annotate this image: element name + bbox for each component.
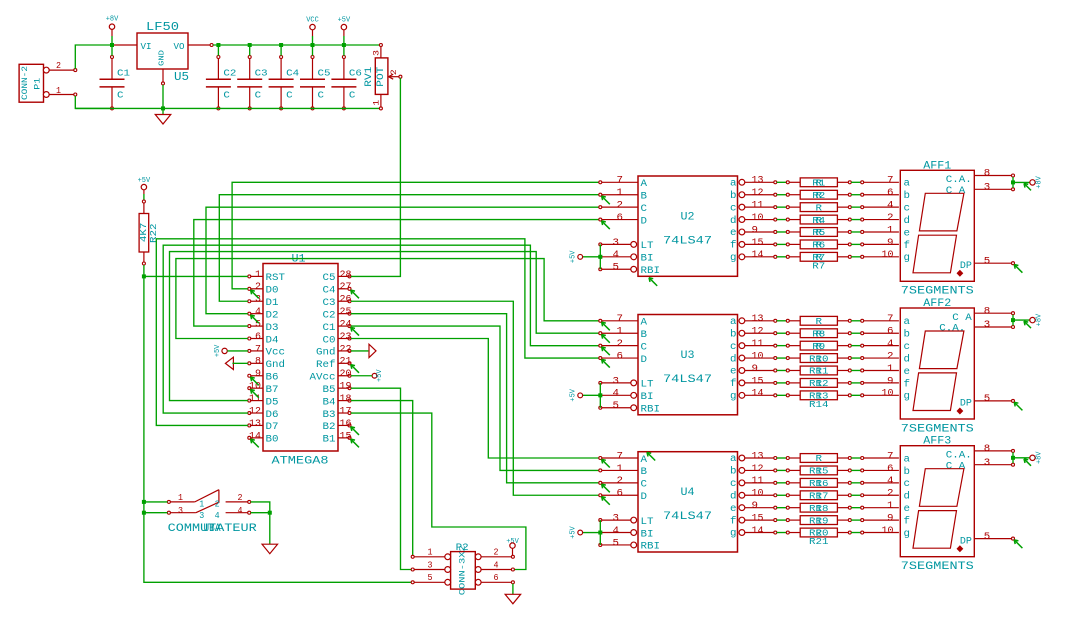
svg-text:a: a	[904, 179, 911, 190]
svg-text:7: 7	[887, 451, 894, 462]
svg-text:BI: BI	[641, 529, 654, 540]
svg-text:VI: VI	[141, 42, 152, 52]
svg-text:e: e	[730, 367, 737, 378]
svg-text:b: b	[904, 466, 911, 478]
resistor R17	[777, 476, 899, 489]
svg-text:7SEGMENTS: 7SEGMENTS	[901, 286, 974, 298]
svg-text:C: C	[641, 480, 648, 491]
svg-text:4: 4	[255, 307, 261, 318]
wire C3 top stub	[249, 45, 251, 56]
svg-text:B2: B2	[323, 422, 336, 433]
svg-text:D: D	[641, 216, 648, 227]
svg-text:C: C	[641, 342, 648, 353]
resistor R7	[777, 250, 899, 263]
svg-text:2: 2	[255, 282, 261, 293]
svg-text:1: 1	[887, 364, 894, 375]
label R14	[809, 400, 829, 410]
svg-text:C3: C3	[323, 298, 336, 309]
svg-text:AFF2: AFF2	[923, 298, 951, 310]
wire C3 to U4	[351, 301, 599, 495]
resistor R15	[777, 451, 899, 464]
pin arrow U3 in 1	[602, 335, 610, 343]
ground right U1	[369, 344, 376, 357]
svg-text:5: 5	[613, 538, 620, 549]
svg-text:f: f	[730, 515, 737, 527]
svg-text:B3: B3	[323, 410, 336, 421]
svg-text:d: d	[730, 353, 737, 365]
svg-text:C6: C6	[349, 69, 362, 79]
svg-text:f: f	[904, 240, 911, 252]
svg-text:RV1: RV1	[364, 67, 375, 87]
svg-text:D7: D7	[266, 422, 279, 433]
svg-text:g: g	[730, 253, 737, 264]
power +8V terminal AFF2	[1030, 313, 1044, 326]
svg-text:C: C	[286, 91, 293, 101]
wire AFF3 CA tie	[1012, 452, 1014, 463]
power +5V terminal top	[338, 17, 351, 37]
svg-text:13: 13	[752, 451, 764, 462]
wire AFF1 CA tie	[1012, 177, 1014, 188]
svg-text:D5: D5	[266, 397, 279, 408]
svg-text:1: 1	[887, 501, 894, 512]
resistor R20	[777, 514, 899, 527]
power +5V terminal AVcc U1	[372, 369, 384, 382]
ground left U1	[225, 357, 233, 369]
svg-text:d: d	[904, 491, 911, 503]
wire U2 BI to +5V	[583, 256, 601, 258]
display AFF3 7SEGMENTS	[900, 436, 1014, 573]
svg-text:R7: R7	[812, 261, 825, 271]
pin arrow U2 RBI corner	[649, 278, 657, 286]
svg-text:C1: C1	[117, 69, 130, 79]
wire P2.6 to ground	[512, 584, 514, 595]
wire AFF2 CA tie	[1012, 315, 1014, 326]
svg-text:R12: R12	[809, 379, 829, 389]
svg-text:12: 12	[752, 188, 764, 199]
svg-text:R14: R14	[809, 400, 829, 410]
svg-text:g: g	[904, 392, 911, 403]
ground P2	[505, 594, 521, 604]
svg-text:C: C	[349, 91, 356, 101]
svg-text:e: e	[904, 228, 911, 239]
wire U4 LT-RBI tie	[599, 520, 601, 545]
svg-text:4K7: 4K7	[139, 223, 149, 243]
svg-text:GND: GND	[159, 50, 167, 66]
pin arrow AFF1 CA	[1024, 183, 1031, 190]
wire P1.1 to gnd rail	[75, 96, 110, 109]
power +5V terminal U4	[569, 525, 582, 538]
svg-text:19: 19	[340, 382, 352, 393]
svg-text:D3: D3	[266, 323, 279, 334]
svg-text:3: 3	[984, 183, 991, 194]
resistor R5	[777, 225, 899, 238]
svg-text:11: 11	[752, 201, 764, 212]
svg-text:2: 2	[215, 499, 220, 509]
svg-text:d: d	[904, 353, 911, 365]
svg-text:74LS47: 74LS47	[663, 236, 712, 248]
svg-text:27: 27	[340, 282, 352, 293]
power +5V terminal P2	[506, 538, 519, 556]
svg-text:UBA: UBA	[204, 523, 221, 535]
svg-text:D4: D4	[266, 335, 279, 346]
node RST junction	[142, 274, 146, 278]
svg-text:6: 6	[617, 213, 624, 224]
svg-text:AFF1: AFF1	[923, 160, 951, 172]
svg-text:R8: R8	[812, 329, 825, 339]
svg-text:13: 13	[752, 314, 764, 325]
svg-text:10: 10	[882, 250, 894, 261]
wire U3 LT-RBI tie	[599, 383, 601, 408]
wire gnd rail	[75, 107, 379, 109]
node switch out junction	[268, 511, 272, 515]
svg-text:8: 8	[255, 357, 261, 368]
svg-text:R17: R17	[809, 491, 829, 501]
svg-text:2: 2	[617, 339, 624, 350]
svg-text:1: 1	[56, 86, 61, 96]
svg-text:Ref: Ref	[316, 359, 336, 371]
svg-text:VCC: VCC	[306, 17, 319, 25]
svg-text:12: 12	[752, 327, 764, 338]
svg-text:RBI: RBI	[641, 405, 661, 416]
svg-text:C5: C5	[323, 273, 336, 284]
svg-text:8: 8	[984, 306, 991, 317]
svg-text:4: 4	[494, 560, 499, 570]
svg-text:+8V: +8V	[1036, 451, 1044, 464]
svg-text:DP: DP	[960, 399, 972, 410]
wire D7 to U3	[156, 239, 599, 426]
wire D4 to U3	[176, 259, 599, 339]
node AFF3 CA junction	[1011, 456, 1015, 460]
wire gnd stub	[162, 108, 164, 114]
svg-text:15: 15	[752, 238, 764, 249]
resistor R1	[777, 176, 899, 189]
label R7	[812, 261, 825, 271]
svg-text:A: A	[641, 455, 648, 466]
svg-text:g: g	[730, 529, 737, 540]
wire C1 top stub	[111, 45, 113, 56]
svg-text:14: 14	[752, 389, 764, 400]
capacitor C6	[331, 56, 362, 110]
svg-text:c: c	[904, 479, 911, 490]
wire Vcc U1	[227, 350, 248, 352]
svg-text:9: 9	[887, 376, 894, 387]
pin arrow U1 left 14	[251, 439, 259, 447]
node U4 BI junction	[598, 531, 602, 535]
svg-text:3: 3	[984, 320, 991, 331]
svg-text:7: 7	[617, 314, 624, 325]
svg-text:1: 1	[617, 327, 624, 338]
svg-text:5: 5	[984, 394, 991, 405]
power +5V terminal Vcc U1	[214, 344, 227, 357]
svg-text:+5V: +5V	[569, 388, 577, 401]
svg-text:C0: C0	[323, 335, 336, 346]
pin arrow U1 pin 15	[351, 439, 359, 447]
svg-text:20: 20	[340, 369, 352, 380]
svg-text:1: 1	[255, 270, 261, 281]
svg-text:AFF3: AFF3	[923, 436, 951, 448]
svg-text:6: 6	[494, 573, 499, 583]
svg-text:6: 6	[887, 464, 894, 475]
connector P2 CONN-3X2	[411, 543, 514, 596]
svg-text:7: 7	[617, 176, 624, 187]
wire B4 to P2.1	[351, 401, 413, 556]
pin arrow U1 pin 24	[351, 327, 359, 335]
node C5 junction	[311, 43, 315, 47]
svg-text:5: 5	[428, 573, 433, 583]
connector P1	[19, 61, 77, 102]
resistor R16	[777, 464, 899, 477]
svg-text:U5: U5	[174, 70, 189, 84]
wire D6 to U3	[163, 245, 599, 413]
svg-text:B7: B7	[266, 385, 279, 396]
svg-text:7: 7	[255, 344, 261, 355]
svg-text:CONN-2: CONN-2	[21, 66, 30, 100]
svg-text:4: 4	[238, 506, 243, 516]
svg-text:2: 2	[56, 61, 61, 71]
svg-text:CONN-3X2: CONN-3X2	[459, 545, 468, 595]
svg-text:14: 14	[752, 526, 764, 537]
svg-text:5: 5	[984, 532, 991, 543]
svg-text:26: 26	[340, 295, 352, 306]
svg-text:4: 4	[887, 201, 894, 212]
svg-text:13: 13	[249, 419, 261, 430]
svg-text:2: 2	[617, 476, 624, 487]
decoder U2 74LS47	[599, 176, 777, 277]
svg-text:2: 2	[390, 69, 399, 75]
pin arrow AFF2 DP	[1014, 402, 1022, 410]
svg-text:3: 3	[199, 511, 204, 521]
svg-text:LT: LT	[641, 517, 654, 528]
wire VO rail	[213, 44, 380, 46]
svg-text:g: g	[730, 392, 737, 403]
svg-text:2: 2	[887, 489, 894, 500]
svg-text:+8V: +8V	[1036, 313, 1044, 326]
svg-text:g: g	[904, 253, 911, 264]
svg-text:Gnd: Gnd	[266, 359, 286, 371]
svg-text:c: c	[730, 479, 737, 490]
svg-text:a: a	[730, 179, 737, 190]
svg-text:C.A.: C.A.	[939, 324, 965, 335]
svg-text:4: 4	[613, 389, 620, 400]
svg-text:12: 12	[249, 406, 261, 417]
decoder U4 74LS47	[599, 451, 777, 552]
node C6 junction	[342, 43, 346, 47]
resistor R8	[777, 314, 899, 327]
resistor R9	[777, 327, 899, 340]
svg-text:R1: R1	[812, 179, 825, 189]
svg-text:c: c	[904, 204, 911, 215]
label R21	[809, 537, 829, 547]
svg-text:7: 7	[887, 176, 894, 187]
svg-text:b: b	[730, 328, 737, 340]
svg-text:U1: U1	[292, 254, 306, 266]
svg-text:13: 13	[752, 176, 764, 187]
svg-text:23: 23	[340, 332, 352, 343]
svg-text:3: 3	[613, 238, 620, 249]
svg-text:e: e	[904, 504, 911, 515]
svg-text:C: C	[117, 91, 124, 101]
svg-text:11: 11	[752, 476, 764, 487]
svg-text:BI: BI	[641, 254, 654, 265]
svg-text:10: 10	[752, 351, 764, 362]
pin arrow U2 in 3	[602, 221, 610, 229]
svg-text:R4: R4	[812, 216, 825, 226]
pin arrow AFF3 CA	[1024, 459, 1031, 466]
svg-text:4: 4	[887, 339, 894, 350]
pin arrow U1 left 10	[251, 389, 259, 397]
svg-text:10: 10	[882, 389, 894, 400]
svg-text:AVcc: AVcc	[310, 373, 336, 384]
svg-text:4: 4	[887, 476, 894, 487]
svg-text:3: 3	[984, 458, 991, 469]
svg-text:a: a	[730, 317, 737, 328]
svg-text:d: d	[730, 215, 737, 227]
svg-text:B6: B6	[266, 373, 279, 384]
svg-text:c: c	[730, 342, 737, 353]
svg-text:RBI: RBI	[641, 542, 661, 553]
svg-text:VO: VO	[174, 42, 185, 52]
svg-text:C.A.: C.A.	[946, 451, 972, 462]
svg-text:b: b	[904, 190, 911, 202]
wire D3 to U2	[194, 220, 599, 327]
svg-text:D: D	[641, 355, 648, 366]
svg-text:RBI: RBI	[641, 266, 661, 277]
svg-text:7SEGMENTS: 7SEGMENTS	[901, 561, 974, 573]
wire C0 to U4	[351, 339, 599, 459]
node switch in 2 junction	[142, 511, 146, 515]
svg-text:R6: R6	[812, 241, 825, 251]
svg-text:B: B	[641, 330, 648, 341]
wire C4 top stub	[280, 45, 282, 56]
svg-text:C5: C5	[318, 69, 331, 79]
decoder U3 74LS47	[599, 314, 777, 415]
capacitor C3	[237, 56, 268, 110]
svg-text:5: 5	[613, 263, 620, 274]
svg-text:1: 1	[617, 464, 624, 475]
svg-text:4: 4	[613, 250, 620, 261]
svg-text:f: f	[904, 378, 911, 390]
svg-text:d: d	[730, 490, 737, 502]
svg-text:LT: LT	[641, 241, 654, 252]
resistor R4	[777, 213, 899, 226]
svg-text:9: 9	[752, 225, 759, 236]
wire C6 top stub	[343, 45, 345, 56]
svg-text:9: 9	[752, 364, 759, 375]
svg-text:8: 8	[984, 169, 991, 180]
svg-text:D: D	[641, 492, 648, 503]
svg-text:2: 2	[887, 213, 894, 224]
svg-text:C: C	[223, 91, 230, 101]
pin arrow U3 in 0	[602, 322, 610, 330]
svg-text:e: e	[730, 228, 737, 239]
svg-text:5: 5	[613, 401, 620, 412]
svg-text:R19: R19	[809, 516, 829, 526]
power +5V terminal U3	[569, 388, 582, 401]
svg-text:D2: D2	[266, 310, 279, 321]
wire U3 BI to +5V	[583, 394, 601, 396]
svg-text:4: 4	[215, 511, 220, 521]
pin arrow U2 in 1	[602, 196, 610, 204]
svg-text:17: 17	[340, 406, 352, 417]
resistor R13	[777, 376, 899, 389]
svg-text:LT: LT	[641, 380, 654, 391]
wire B5 to P2.3	[351, 388, 411, 569]
svg-text:b: b	[904, 329, 911, 341]
svg-text:LF50: LF50	[146, 20, 179, 34]
svg-text:C2: C2	[223, 69, 236, 79]
power +8V terminal AFF1	[1030, 175, 1044, 188]
svg-text:C4: C4	[323, 286, 336, 297]
op-amp U1 ATMEGA8	[248, 254, 352, 468]
svg-text:R: R	[816, 203, 823, 213]
svg-text:e: e	[730, 504, 737, 515]
svg-text:e: e	[904, 367, 911, 378]
svg-text:9: 9	[255, 369, 261, 380]
svg-text:B4: B4	[323, 397, 336, 408]
resistor R12	[777, 364, 899, 377]
svg-text:C.A.: C.A.	[946, 175, 972, 186]
svg-text:C4: C4	[286, 69, 299, 79]
power VCC terminal	[306, 17, 319, 37]
svg-text:a: a	[904, 317, 911, 328]
svg-text:U3: U3	[681, 350, 695, 362]
power +5V terminal U2	[569, 250, 582, 263]
wire D1 to U2	[219, 195, 599, 302]
svg-text:C1: C1	[323, 323, 336, 334]
wire RST net	[144, 265, 411, 582]
wire C1 to U4	[351, 326, 599, 470]
power +5V terminal R22	[138, 177, 151, 194]
svg-text:+5V: +5V	[376, 369, 384, 382]
svg-text:D0: D0	[266, 286, 279, 297]
wire +5V stub	[343, 36, 345, 45]
svg-text:BI: BI	[641, 392, 654, 403]
svg-text:R15: R15	[809, 467, 829, 477]
svg-text:+5V: +5V	[214, 344, 222, 357]
svg-text:11: 11	[752, 339, 764, 350]
ground switch	[262, 544, 278, 554]
svg-text:R5: R5	[812, 228, 825, 238]
svg-text:ATMEGA8: ATMEGA8	[272, 456, 329, 468]
svg-text:16: 16	[340, 419, 352, 430]
svg-text:C2: C2	[323, 310, 336, 321]
resistor R3	[777, 201, 899, 214]
svg-text:1: 1	[617, 188, 624, 199]
svg-text:+5V: +5V	[338, 17, 351, 25]
wire U5 gnd	[162, 85, 164, 109]
pin arrow U1 pin 27	[351, 290, 359, 298]
svg-text:b: b	[730, 190, 737, 202]
svg-text:6: 6	[887, 327, 894, 338]
node U2 BI junction	[598, 255, 602, 259]
node U5 gnd junction	[161, 106, 165, 110]
svg-text:DP: DP	[960, 536, 972, 547]
pin arrow U1 pin 21	[351, 365, 359, 373]
wire B3 to P2.4	[351, 413, 526, 569]
svg-text:24: 24	[340, 319, 352, 330]
resistor R11	[777, 351, 899, 364]
resistor R19	[777, 501, 899, 514]
svg-text:R: R	[816, 454, 823, 464]
wire D5 to U3	[170, 252, 599, 401]
svg-text:U4: U4	[681, 487, 695, 499]
node AFF1 CA junction	[1011, 180, 1015, 184]
wire +8V to VI node	[111, 36, 113, 45]
svg-text:6: 6	[617, 489, 624, 500]
svg-text:R10: R10	[809, 354, 829, 364]
svg-text:+5V: +5V	[569, 250, 577, 263]
svg-text:3: 3	[178, 506, 183, 516]
